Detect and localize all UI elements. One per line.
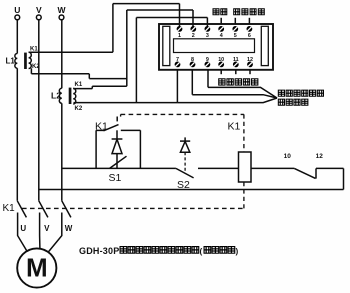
screw 10: [218, 62, 224, 68]
screw 4: [218, 26, 224, 32]
svg-text:6: 6: [248, 33, 251, 39]
stub terminal 5: [234, 18, 236, 24]
diode D2 triangle: [180, 141, 189, 152]
screw 7: [175, 62, 181, 68]
label jie kongzhi huilu (control circuit): [219, 79, 258, 86]
wire L1 K2 jog up: [88, 74, 90, 79]
wire W phase upper: [61, 20, 63, 89]
transformer L1 core: [24, 53, 27, 69]
wire node B vertical: [126, 10, 128, 86]
wire U phase upper: [16, 20, 18, 54]
control circuit: [39, 117, 344, 190]
K1 loop left vertical: [95, 130, 97, 168]
stub terminal 10: [220, 70, 222, 74]
transformer L2 primary winding: [59, 88, 62, 103]
svg-text:L2: L2: [51, 91, 61, 101]
K1 main blade U: [17, 201, 26, 218]
wire terminal 8 to arrow: [192, 95, 277, 98]
screw 1: [177, 26, 183, 32]
svg-text:V: V: [44, 224, 50, 233]
svg-text:3: 3: [206, 33, 209, 39]
svg-text:M: M: [26, 252, 48, 282]
wire down to terminal 2: [192, 10, 194, 30]
block left bracket: [163, 26, 170, 65]
motor circle: [17, 248, 56, 287]
numbers 7-12: [176, 57, 253, 63]
wire down to terminal 3: [206, 18, 208, 30]
K1 contact fixed tick: [116, 117, 118, 122]
K1 main blade W: [62, 201, 71, 218]
stub terminal 11: [235, 70, 237, 74]
wire top to terminal 1: [113, 3, 180, 5]
K1 contact left lead: [96, 129, 103, 131]
screw 5: [232, 26, 238, 32]
svg-text:10: 10: [284, 153, 292, 160]
terminal U: [15, 15, 20, 20]
svg-text:K1: K1: [228, 120, 241, 132]
wire U phase lower: [16, 68, 18, 201]
wire L2 K1 riser: [91, 86, 93, 88]
wire top to terminal 2: [127, 9, 193, 11]
contact 12 riser: [315, 168, 317, 178]
contact 10-12 blade: [294, 168, 315, 178]
svg-text:K2: K2: [32, 64, 40, 70]
label jiedi (ground): [213, 9, 227, 15]
dashed linkage bottom: [22, 207, 244, 209]
K1 contact blade: [104, 125, 119, 131]
diode D1 bottom lead: [116, 154, 118, 169]
K1 main blade V: [39, 201, 48, 218]
label jieru qita yibiao (connect other instruments): [278, 90, 323, 96]
svg-text:12: 12: [316, 153, 324, 160]
svg-text:U: U: [14, 5, 20, 15]
screw 3: [205, 26, 211, 32]
wire top to terminal 3: [136, 17, 207, 19]
svg-text:K1: K1: [95, 120, 108, 132]
wire terminal3 vertical: [135, 18, 137, 103]
dashed linkage tick at K1 contact: [120, 114, 122, 116]
svg-text:W: W: [57, 5, 66, 15]
transformer L1 primary winding: [15, 54, 17, 69]
diode D2 cathode bar: [180, 140, 190, 142]
wire L2 K2 long horizontal: [74, 102, 178, 104]
terminal block: [159, 24, 273, 70]
relay coil K1: [239, 152, 252, 182]
stub terminal 4 ground: [220, 18, 222, 24]
wire terminal 9 to arrow: [208, 87, 277, 98]
label huo biansongqi (or transmitter): [278, 99, 308, 105]
svg-text:K1: K1: [30, 47, 38, 53]
svg-text:U: U: [20, 224, 26, 233]
wire terminal 9 down: [207, 70, 209, 88]
svg-text:2: 2: [192, 33, 195, 39]
svg-text:S2: S2: [177, 179, 190, 191]
diode D2 dashed lead: [184, 152, 186, 171]
screws row 1: [177, 26, 253, 32]
wire main control line left: [62, 167, 176, 169]
numbers 1-6: [178, 33, 251, 39]
diode D1 cathode bar: [112, 138, 123, 140]
dashed linkage vertical upper: [243, 114, 245, 152]
block outer rectangle: [159, 24, 273, 70]
block inner rectangle: [174, 39, 255, 53]
dashed linkage vertical lower: [243, 182, 245, 208]
svg-text:W: W: [65, 224, 73, 233]
wire W to motor: [48, 213, 62, 253]
wire V to motor: [39, 213, 41, 249]
wire return line: [39, 189, 344, 191]
wire terminal 7 to arrow: [177, 98, 277, 103]
K1 contact right lead: [121, 129, 141, 131]
wire L1 K1 to node: [29, 51, 113, 53]
svg-text:L1: L1: [6, 56, 16, 65]
stub terminal 12: [249, 70, 251, 74]
wire coil to contact 10: [251, 167, 294, 169]
wire main control line right of S2: [198, 167, 239, 169]
screw 8: [190, 62, 196, 68]
svg-text:5: 5: [234, 33, 237, 39]
screw 12: [247, 62, 253, 68]
svg-text:(: (: [200, 247, 203, 256]
wire L1 K2 horizontal: [31, 73, 89, 75]
switch S2 blade: [176, 168, 194, 178]
switch S1 blade: [110, 156, 127, 168]
diode D1 triangle: [112, 139, 122, 153]
svg-text:): ): [236, 247, 239, 256]
label gongzuo dianyuan (working power): [234, 9, 265, 15]
svg-text:K1: K1: [3, 203, 16, 214]
wire U to motor: [18, 213, 27, 251]
wire W phase lower: [61, 103, 63, 201]
wire up from L1 K1: [112, 4, 114, 53]
stub terminal 6: [248, 18, 250, 24]
screw 11: [233, 62, 239, 68]
K1 loop right vertical: [139, 130, 141, 168]
svg-text:1: 1: [178, 33, 181, 39]
svg-text:K2: K2: [75, 106, 83, 112]
screws row 2: [175, 62, 253, 68]
svg-text:K1: K1: [75, 82, 83, 88]
transformer L2 core: [69, 88, 72, 104]
wire right edge down: [343, 168, 345, 189]
svg-text:GDH-30P: GDH-30P: [79, 246, 119, 256]
screw 6: [247, 26, 253, 32]
svg-text:4: 4: [220, 33, 223, 39]
wire down to terminal 1: [179, 4, 181, 30]
wire terminal 8 down: [191, 70, 193, 95]
transformer L2 secondary winding: [73, 88, 76, 104]
svg-text:V: V: [36, 5, 42, 15]
wire node B bottom left: [92, 85, 127, 87]
wire V phase: [38, 20, 40, 201]
terminal V: [36, 15, 41, 20]
transformer L1 secondary winding: [29, 52, 32, 68]
wire L2 K1 tap: [73, 88, 92, 90]
dashed linkage top: [121, 113, 244, 115]
wire L1 K2 tap drop: [30, 68, 32, 74]
svg-text:S1: S1: [109, 172, 122, 184]
wire terminal 7 down: [176, 70, 178, 103]
wire jog to node B: [89, 78, 127, 80]
terminal W: [59, 15, 64, 20]
screw 2: [190, 26, 196, 32]
diode D1 top lead: [116, 130, 118, 139]
bottom left contactor: [17, 201, 71, 288]
wire 12 to right edge: [316, 167, 344, 169]
screw 9: [205, 62, 211, 68]
diode D2 top lead: [184, 137, 186, 141]
block right bracket: [261, 26, 268, 65]
